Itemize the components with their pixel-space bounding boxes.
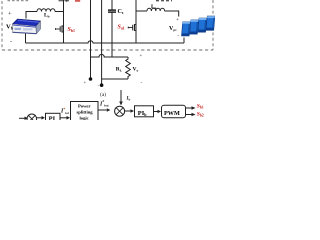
- dashed border left edge: [1, 1, 3, 50]
- wire inductor to switch node: [55, 11, 64, 13]
- summing junction 2: [115, 106, 125, 116]
- battery leg wire (switch node vertical): [63, 0, 65, 43]
- svg-text:logic: logic: [80, 116, 89, 121]
- svg-text:Ib: Ib: [126, 97, 131, 102]
- resistor RL zigzag: [126, 57, 131, 79]
- wire power splitting to summer 2: [98, 109, 107, 111]
- node dot terminal 1: [89, 77, 93, 81]
- wire inductor to PV plus: [165, 11, 179, 17]
- wire PI to power splitting: [60, 117, 67, 119]
- svg-text:PI: PI: [49, 116, 56, 120]
- svg-text:PWM: PWM: [164, 110, 180, 117]
- output wire S_b2: [186, 114, 192, 116]
- output rail 2 (x=101.6): [101, 0, 103, 85]
- wire PV switch node to inductor: [136, 10, 147, 12]
- battery minus wire down: [25, 34, 27, 44]
- svg-text:Power: Power: [78, 104, 91, 109]
- svg-text:-: -: [141, 80, 143, 86]
- input wire and arrow to summer 1: [19, 117, 25, 119]
- dashed border top remnant left: [8, 0, 31, 2]
- cropped top switch marks: [59, 0, 70, 2]
- load bottom wire: [102, 78, 128, 80]
- block PWM: [162, 105, 186, 117]
- wire summer1 to PI: [37, 117, 42, 119]
- svg-text:+: +: [140, 54, 143, 59]
- dashed border right edge: [212, 0, 214, 50]
- PV panel: [182, 16, 215, 36]
- block power splitting: [71, 102, 99, 124]
- svg-text:+: +: [176, 17, 179, 23]
- svg-text:-: -: [10, 39, 12, 45]
- wire summer2 to PIb: [124, 110, 130, 112]
- block PIb: [135, 106, 154, 117]
- block PI: [46, 113, 61, 123]
- svg-text:+: +: [84, 81, 87, 86]
- Ib feedback wire down into summer 2: [120, 90, 122, 102]
- node dot terminal 2: [100, 83, 104, 87]
- output rail 1 (x=90.5): [90, 0, 92, 79]
- inductor Lb: [37, 9, 55, 12]
- svg-text:Vb: Vb: [6, 24, 14, 31]
- wire PIb to PWM: [154, 111, 158, 113]
- svg-text:(a): (a): [100, 91, 106, 98]
- battery V_b: [13, 19, 41, 34]
- transistor S_b1: [56, 25, 64, 33]
- cropped red label top (S_b2): [75, 0, 80, 2]
- load top wire with hop over x=101.6: [91, 54, 129, 57]
- PV leg wire (switch node vertical): [135, 0, 137, 43]
- inductor La: [147, 8, 165, 11]
- cropped marks top right: [156, 0, 172, 2]
- svg-text:splitting: splitting: [77, 110, 94, 115]
- svg-text:+: +: [8, 11, 12, 18]
- output wire S_b1: [186, 107, 192, 109]
- svg-text:-: -: [178, 33, 180, 39]
- summing junction 1: [27, 114, 37, 124]
- dashed border bottom edge: [2, 49, 213, 51]
- wire battery plus to inductor: [26, 12, 37, 19]
- svg-text:PIb: PIb: [138, 110, 148, 117]
- PV minus wire up from bus: [183, 38, 185, 44]
- capacitor Cs branch: [108, 0, 116, 57]
- transistor S_a1: [128, 24, 136, 32]
- bottom bus wire with hop over x=90.5: [26, 41, 185, 43]
